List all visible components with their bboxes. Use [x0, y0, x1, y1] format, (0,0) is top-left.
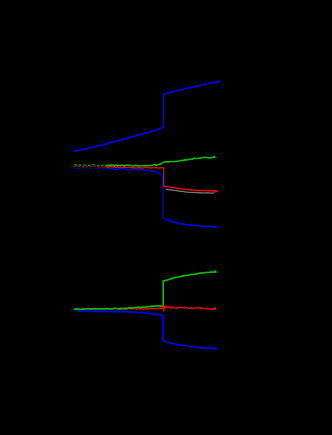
green component sparse left segment, upper panel — [74, 165, 106, 166]
blue component curve, upper panel (flat then drop) — [106, 168, 162, 174]
blue component curve, lower panel (drop at x=163) — [78, 311, 216, 349]
red end marker, lower panel — [213, 308, 216, 310]
green end tip, lower panel — [214, 270, 216, 273]
green component curve, lower panel (jump up at x=163) — [74, 272, 216, 309]
red component curve, lower panel (nearly flat with glitch) — [161, 306, 216, 312]
blue component sparse left segment, upper panel — [74, 168, 106, 170]
red component curve before transition, lower panel — [76, 308, 162, 310]
blue lower branch after drop, upper panel — [163, 218, 217, 227]
blue curve end tip, upper panel — [218, 80, 220, 82]
blue mz curve, upper panel (switching jump at x=163) — [74, 81, 220, 151]
red component curve, upper panel (flat then drop) — [106, 166, 217, 191]
green component curve, upper panel (rises through transition) — [106, 157, 215, 167]
blue branch end tip, upper panel — [215, 226, 217, 228]
green end tick, upper panel — [214, 156, 215, 157]
gray curve, upper panel after transition — [166, 189, 215, 193]
red component sparse left segment, upper panel — [74, 166, 106, 168]
blue end tip, lower panel — [214, 347, 216, 350]
red end marker, upper panel — [215, 190, 218, 192]
blue vertical drop, upper panel (dark anti-aliased) — [162, 175, 164, 219]
